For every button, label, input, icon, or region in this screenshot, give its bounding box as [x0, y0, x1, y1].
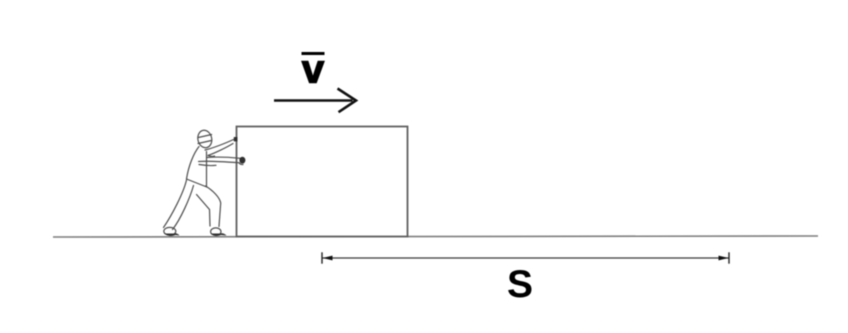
svg-text:S: S [507, 263, 533, 306]
svg-text:v: v [302, 48, 325, 92]
